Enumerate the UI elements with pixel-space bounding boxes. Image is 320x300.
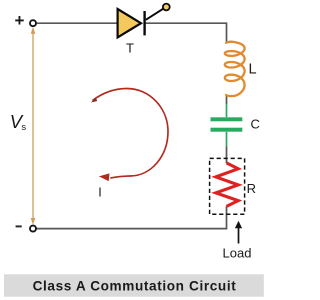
svg-text:s: s: [21, 122, 26, 133]
svg-text:C: C: [251, 117, 260, 132]
svg-text:L: L: [249, 62, 257, 78]
svg-text:I: I: [98, 186, 101, 200]
svg-text:Load: Load: [223, 245, 252, 260]
svg-text:T: T: [126, 41, 134, 56]
svg-text:+: +: [15, 11, 25, 30]
svg-text:Class A Commutation Circuit: Class A Commutation Circuit: [33, 278, 237, 293]
svg-text:R: R: [247, 181, 256, 196]
